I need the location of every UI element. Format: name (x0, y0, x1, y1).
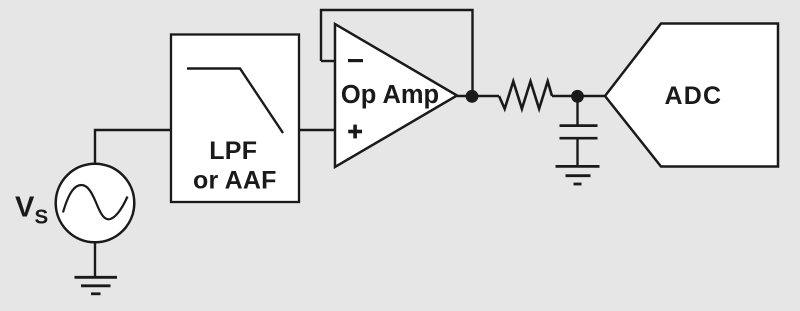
svg-text:Op Amp: Op Amp (341, 81, 439, 109)
svg-text:V: V (15, 192, 35, 224)
svg-text:or AAF: or AAF (193, 166, 277, 194)
svg-text:LPF: LPF (209, 137, 257, 165)
svg-text:ADC: ADC (665, 82, 723, 110)
svg-text:S: S (35, 206, 49, 229)
